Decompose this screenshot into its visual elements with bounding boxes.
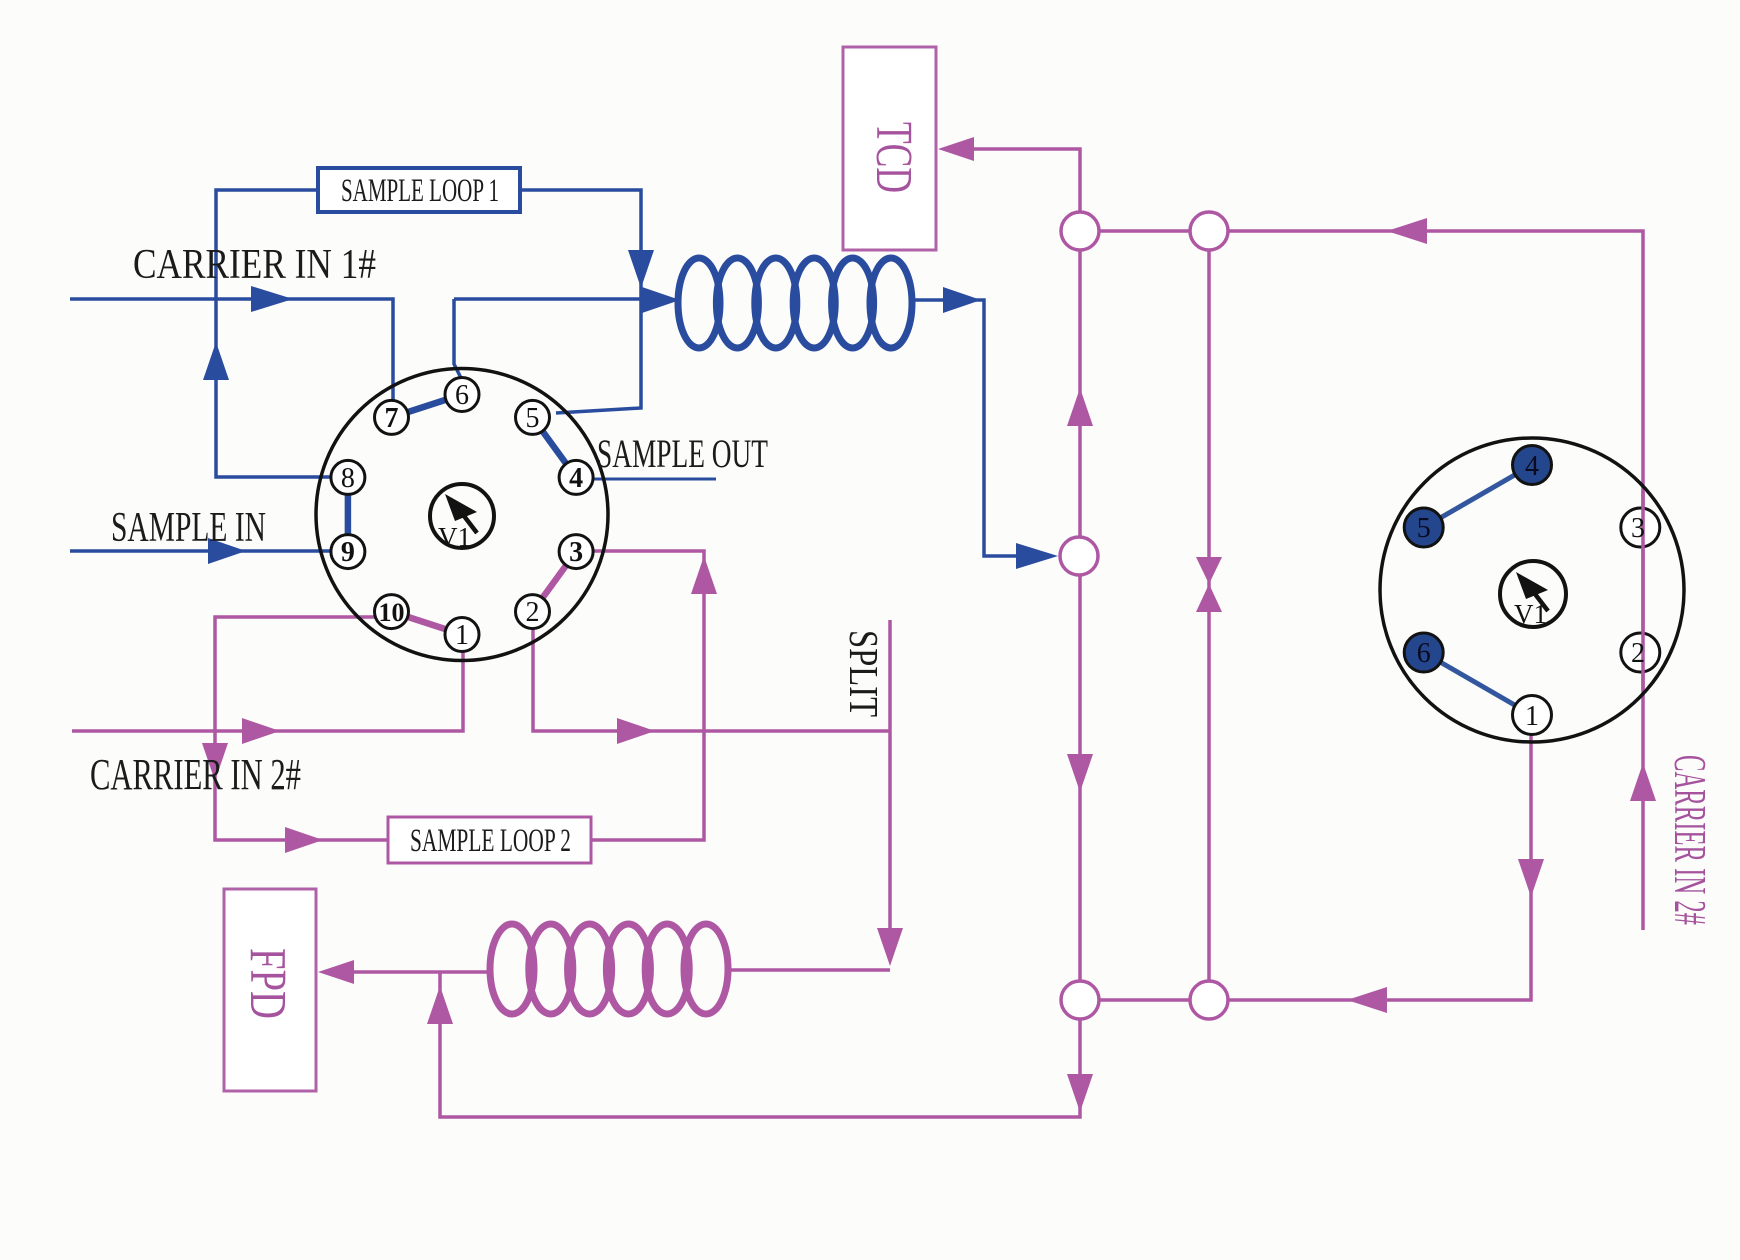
wire: mid vertical manifold upper (node to TCD node) [1078,250,1082,537]
wire: node1-node2 top link [1099,229,1190,233]
wire: column 2 inlet from split junction [728,968,890,972]
node: TCD junction left [1061,212,1099,250]
flow arrow up on mid vertical [1067,388,1093,426]
svg-text:6: 6 [455,380,469,411]
node: bottom junction right [1190,981,1228,1019]
column 2 coil (magenta) [490,924,728,1014]
svg-text:5: 5 [1417,513,1431,544]
flow arrow into mid junction node [1016,543,1058,569]
flow arrow left on bottom manifold [1347,987,1387,1013]
wire: bottom return line to FPD branch [440,972,1080,1117]
svg-text:4: 4 [569,463,583,494]
port 1 [1513,696,1552,735]
restrictor (hourglass) symbol [1196,557,1222,612]
wire: carrier/port3 column line overlay across right valve ports [1641,490,1645,690]
wire: SPLIT vent line [888,620,892,934]
column 1 coil (blue) [678,258,912,348]
flow arrow down on split line [877,928,903,966]
wire: left valve port 2 to split line [533,629,890,731]
rotor link 5-4 (blue) [1424,465,1532,528]
node: bottom junction left [1061,981,1099,1019]
rotor cursor icon [445,494,477,521]
flow arrow on CARRIER IN 1# line [251,286,293,312]
svg-text:2: 2 [1631,638,1645,669]
wire: left valve port 3 to sample loop 2 right leg [591,551,704,840]
port 4 (filled) [1513,446,1552,485]
flow arrow on CARRIER IN 2# line [242,718,280,744]
svg-text:4: 4 [1525,451,1539,482]
rotor cursor icon [1516,572,1548,599]
valve V1 rotor hub [430,484,494,548]
valve V1 (10-port) body [316,369,608,661]
wire: FPD inlet line [354,970,492,974]
svg-text:CARRIER IN 2#: CARRIER IN 2# [1665,755,1716,925]
port 3 [1621,508,1660,547]
svg-text:10: 10 [379,598,405,627]
wire: column 1 outlet down to junction node [911,300,1018,556]
flow arrow down before bottom corner [1067,1074,1093,1112]
SAMPLE LOOP 2 box [388,817,591,863]
flow arrow after column 1 [943,287,981,313]
flow arrow up into FPD line [427,986,453,1024]
svg-text:V1: V1 [438,522,471,552]
valve V1' rotor hub [1500,561,1566,627]
port 2 [516,595,550,629]
wire: CARRIER IN 2# line into left valve port 1 [72,652,463,731]
wire: second vertical manifold with restrictor [1207,250,1211,981]
svg-text:SAMPLE LOOP 1: SAMPLE LOOP 1 [341,173,499,209]
flow arrow up on carrier 2 riser (right) [1630,763,1656,801]
port 5 [516,400,550,434]
wire: SAMPLE OUT line from port 4 [593,478,716,481]
port 7 [375,400,409,434]
svg-text:CARRIER IN 1#: CARRIER IN 1# [133,242,376,288]
wire: sample loop 2 left leg from port 10 [215,617,388,840]
flow arrow into TCD [938,137,974,161]
wire: mid vertical manifold lower [1078,575,1082,981]
flow arrow down on mid vertical lower [1067,754,1093,792]
flow arrow right toward split [617,718,655,744]
svg-text:7: 7 [385,403,399,434]
flow arrow up on loop1 left leg [203,342,229,380]
port 6 (filled) [1404,633,1443,672]
svg-text:3: 3 [1631,513,1645,544]
wire: top manifold run from right valve port 3 [1228,231,1643,930]
rotor link 10-1 (magenta) [392,612,463,635]
wire: right valve port 1 down to bottom manifold [1228,734,1531,1000]
svg-text:9: 9 [341,537,355,568]
rotor link 5-4 (blue) [533,417,577,477]
svg-text:SAMPLE OUT: SAMPLE OUT [597,431,768,476]
port 1 [445,618,479,652]
port 5 (filled) [1404,508,1443,547]
flow arrow up into port 3 leg [691,556,717,594]
svg-text:6: 6 [1417,638,1431,669]
wire: SAMPLE IN line into port 9 [70,549,331,553]
rotor link 6-1 (blue) [1424,653,1532,716]
flow arrow into FPD [318,960,354,984]
rotor link 2-3 (magenta) [533,552,577,612]
flow arrow down from right valve port 1 [1518,859,1544,897]
svg-text:SAMPLE LOOP 2: SAMPLE LOOP 2 [410,823,571,859]
valve V1' (6-port) body [1380,438,1684,742]
flow arrow into column 1 [642,287,680,313]
wire: sample loop 1 right leg down into port 5 [520,190,641,413]
port 10 [375,595,409,629]
wire: CARRIER IN 1# main blue line into valve port 7 [70,299,393,400]
port 9 [331,535,365,569]
svg-text:2: 2 [526,597,540,628]
FPD detector box [224,889,316,1091]
port 8 [331,460,365,494]
svg-text:CARRIER IN 2#: CARRIER IN 2# [90,750,301,799]
wire: port 6 riser and line to column 1 [454,299,644,378]
port 2 [1621,633,1660,672]
wire: bottom node link [1099,998,1190,1002]
flow arrow on SAMPLE IN line [208,538,246,564]
svg-text:3: 3 [569,537,583,568]
port 3 [559,535,593,569]
svg-text:FPD: FPD [239,948,296,1019]
node: column 1 outlet junction [1060,537,1098,575]
svg-text:SAMPLE IN: SAMPLE IN [111,505,266,551]
flow arrow down on loop1 right leg [628,250,654,288]
SAMPLE LOOP 1 box [318,168,520,212]
svg-text:TCD: TCD [865,122,922,193]
port 6 [445,378,479,412]
svg-text:5: 5 [526,403,540,434]
svg-text:V1: V1 [1514,599,1547,629]
svg-text:1: 1 [455,620,469,651]
rotor link 7-6 (blue) [392,395,463,418]
flow arrow down on loop2 left leg [202,743,228,781]
flow arrow left on top manifold [1387,218,1427,244]
TCD detector box [843,47,936,250]
port 4 [559,460,593,494]
svg-text:8: 8 [341,463,355,494]
rotor link 8-9 (blue) [345,477,352,551]
node: TCD junction right [1190,212,1228,250]
wire: TCD inlet line [974,149,1080,212]
svg-text:1: 1 [1525,701,1539,732]
svg-text:SPLIT: SPLIT [841,630,887,717]
wire: sample loop 1 left leg (port 8 to loop) [216,190,332,477]
flow arrow right into sample loop 2 [285,827,323,853]
